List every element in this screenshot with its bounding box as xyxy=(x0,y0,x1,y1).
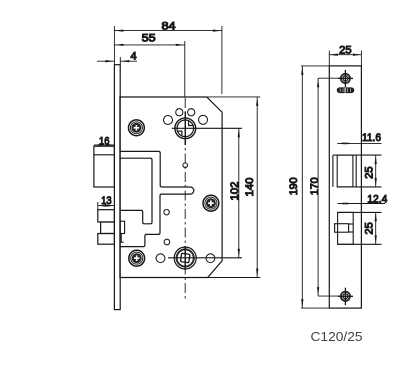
svg-text:140: 140 xyxy=(244,178,256,197)
svg-text:13: 13 xyxy=(101,195,112,207)
vertical centerline dash-dot xyxy=(184,98,186,300)
top screw hole xyxy=(338,70,353,87)
faceplate front view xyxy=(329,66,361,308)
deadbolt head upper block xyxy=(98,210,115,222)
svg-text:25: 25 xyxy=(339,44,352,56)
hole right of follower xyxy=(206,254,215,263)
mechanism tab near deadbolt xyxy=(120,221,124,233)
dim 13 xyxy=(98,202,115,210)
mechanism step below tab xyxy=(121,234,123,243)
svg-text:84: 84 xyxy=(162,21,176,33)
dim 16 xyxy=(94,144,115,146)
screw boss right middle xyxy=(203,195,219,211)
svg-text:12.4: 12.4 xyxy=(367,194,387,206)
dim 190 xyxy=(301,66,329,308)
lock case outline xyxy=(120,97,222,278)
deadbolt head middle block xyxy=(101,222,115,234)
dim 4 xyxy=(97,57,137,65)
svg-text:170: 170 xyxy=(309,177,321,195)
dim 140 xyxy=(207,97,261,278)
svg-text:55: 55 xyxy=(142,33,156,45)
svg-text:11.6: 11.6 xyxy=(362,132,381,144)
svg-text:C120/25: C120/25 xyxy=(311,329,363,344)
crosshair extension line through cylinder to dim 102 top xyxy=(172,127,242,129)
deadbolt cutout xyxy=(335,212,382,244)
spindle follower xyxy=(174,246,196,270)
svg-text:25: 25 xyxy=(364,222,376,235)
dim 11.6 xyxy=(337,142,381,144)
bottom screw hole xyxy=(338,288,353,305)
latch bolt head xyxy=(94,146,115,187)
hole circle B xyxy=(176,109,183,116)
dim 102 xyxy=(238,128,240,257)
dim 55 xyxy=(114,41,184,97)
hole circle A xyxy=(164,116,173,125)
small hole below cylinder xyxy=(183,163,188,168)
dim 25 deadbolt cutout xyxy=(375,212,377,244)
svg-text:102: 102 xyxy=(229,181,241,200)
dim 25 latch cutout xyxy=(375,155,377,187)
crosshair extension line through follower to dim 102 bottom xyxy=(168,257,242,259)
dim 84 xyxy=(114,26,221,94)
svg-text:16: 16 xyxy=(99,135,110,147)
brand logo xyxy=(337,87,354,93)
dim 25 top xyxy=(329,51,361,66)
deadbolt head lower block xyxy=(98,234,115,245)
small hole lower left xyxy=(164,239,170,245)
cylinder cam step lower left xyxy=(177,131,182,135)
dim 170 xyxy=(317,78,341,296)
latch bevel line xyxy=(94,154,115,156)
cylinder cam step upper right xyxy=(189,121,194,125)
hole circle C xyxy=(188,109,195,116)
cylinder hole outer ring xyxy=(175,118,196,139)
faceplate edge view xyxy=(114,65,120,310)
cylinder crosshair vertical xyxy=(184,112,186,145)
hole circle D xyxy=(199,115,208,124)
small hole mid left xyxy=(164,210,169,215)
svg-text:190: 190 xyxy=(288,177,300,195)
screw boss bottom left xyxy=(129,250,145,266)
svg-text:25: 25 xyxy=(364,166,376,179)
dim 12.4 xyxy=(338,202,385,204)
screw boss top left xyxy=(129,120,145,136)
svg-text:4: 4 xyxy=(130,50,136,62)
mechanism inner contour xyxy=(120,158,152,224)
hole left of follower xyxy=(156,254,165,263)
mechanism outer contour with slot xyxy=(120,151,194,246)
latch cutout xyxy=(333,155,382,187)
